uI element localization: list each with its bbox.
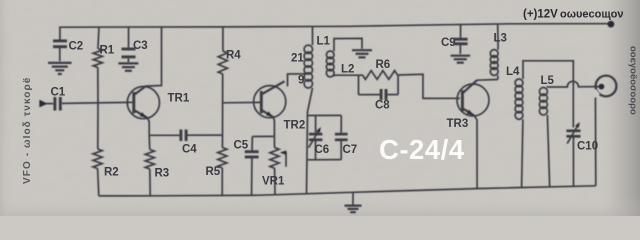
- capacitor C9: [454, 39, 468, 44]
- wire: [460, 24, 462, 38]
- ground (below C9): [451, 56, 471, 63]
- wire: [572, 138, 574, 187]
- resistor R1: [93, 49, 102, 68]
- wire: [221, 168, 223, 195]
- wire: [222, 27, 224, 51]
- wire (emitter node to C4): [149, 134, 179, 136]
- svg-text:C7: C7: [343, 144, 358, 156]
- wire: [315, 141, 317, 160]
- svg-text:R3: R3: [155, 168, 170, 180]
- svg-text:VR1: VR1: [262, 176, 285, 188]
- svg-text:L3: L3: [494, 33, 507, 45]
- svg-text:L1: L1: [317, 36, 331, 48]
- wire (L2 top to ground): [334, 38, 362, 51]
- wire (L1 bottom / C6C7 column): [307, 88, 313, 194]
- ground (main, below bottom rail): [352, 192, 354, 204]
- svg-text:TR1: TR1: [168, 93, 190, 105]
- transistor TR3: [457, 80, 498, 189]
- svg-text:TR2: TR2: [284, 120, 306, 132]
- svg-text:R6: R6: [376, 59, 391, 71]
- resistor R4: [218, 51, 227, 74]
- output connector (coax socket): [596, 76, 617, 97]
- inductor L3: [497, 75, 499, 79]
- capacitor C4: [181, 130, 186, 142]
- wire (rail end up to connector): [594, 91, 596, 185]
- wire: [547, 115, 549, 187]
- transistor TR1: [127, 27, 161, 135]
- svg-text:R4: R4: [226, 50, 241, 62]
- resistor R6: [363, 71, 398, 80]
- capacitor C7: [340, 115, 342, 132]
- capacitor C1: [55, 97, 60, 111]
- capacitor C8: [358, 75, 360, 95]
- svg-text:9: 9: [298, 75, 304, 87]
- svg-text:TR3: TR3: [447, 118, 469, 130]
- ground (L2): [352, 50, 372, 57]
- svg-text:L5: L5: [541, 75, 555, 87]
- wire (ground rail): [99, 186, 596, 196]
- svg-text:(+)12V: (+)12V: [523, 9, 558, 21]
- svg-text:C1: C1: [51, 87, 66, 99]
- wire (C1 to TR1 base node): [62, 102, 132, 103]
- wire (R1 bottom to base node): [97, 67, 99, 102]
- svg-text:C3: C3: [133, 40, 148, 52]
- inductor L5: [539, 88, 547, 116]
- wire (top tie of C6 C7): [307, 114, 341, 116]
- svg-text:C5: C5: [234, 140, 249, 152]
- inductor L1: [304, 45, 312, 88]
- inductor L4: [515, 79, 523, 119]
- node supply endpoint dot: [608, 21, 615, 28]
- capacitor C6 (trimmer): [315, 116, 317, 133]
- wire (emitter node to C5): [252, 135, 274, 137]
- svg-text:C2: C2: [69, 41, 84, 53]
- wire (L5 top to output, hops over C10 column): [547, 81, 598, 87]
- svg-text:C8: C8: [375, 100, 390, 112]
- capacitor C3: [122, 49, 136, 57]
- wire (L2 bottom to R6 node): [334, 75, 359, 76]
- svg-text:R1: R1: [100, 45, 115, 57]
- transistor TR2: [254, 74, 310, 137]
- svg-text:οοєγοёοσоορο: οοєγοёοσоορο: [628, 46, 639, 115]
- resistor R5: [221, 135, 223, 147]
- potentiometer VR1: [273, 136, 275, 147]
- svg-text:VFO - ωΙοδ τνκορё: VFO - ωΙοδ τνκορё: [22, 77, 33, 184]
- wire: [312, 27, 314, 45]
- wire (R6 node to TR3 base): [398, 74, 460, 98]
- wire: [251, 158, 253, 195]
- svg-text:L4: L4: [506, 66, 520, 78]
- svg-text:C-24/4: C-24/4: [379, 134, 465, 165]
- capacitor C5: [251, 137, 253, 151]
- wire (+12V supply rail): [59, 24, 611, 28]
- wire: [497, 24, 499, 50]
- capacitor C2: [53, 41, 67, 47]
- wire (L4 top box): [523, 61, 573, 128]
- svg-text:C10: C10: [577, 141, 598, 153]
- white gap in output connector ring: [591, 89, 599, 97]
- resistor R2: [93, 149, 102, 169]
- svg-text:oωυеcοщον: oωυеcοщον: [560, 9, 624, 21]
- wire: [59, 27, 61, 40]
- wire (bottom tie of C6 C7): [307, 159, 342, 161]
- wire: [522, 119, 523, 187]
- wire (C4 to R5 node): [188, 134, 223, 136]
- svg-text:C9: C9: [441, 37, 456, 49]
- svg-text:C6: C6: [315, 144, 330, 156]
- wire (base wire to TR2): [223, 101, 260, 103]
- wire: [59, 48, 61, 61]
- svg-text:C4: C4: [182, 144, 197, 156]
- svg-text:R5: R5: [206, 166, 221, 178]
- svg-text:R2: R2: [104, 167, 119, 179]
- wire: [128, 27, 130, 48]
- inductor L2: [326, 51, 334, 77]
- wire: [149, 169, 151, 196]
- capacitor C10 (variable): [566, 122, 580, 144]
- wire: [274, 168, 276, 195]
- node input terminal arrow: [39, 100, 48, 108]
- wire: [98, 169, 99, 196]
- ground (below C2): [48, 63, 72, 74]
- wire: [98, 27, 99, 49]
- svg-text:21: 21: [291, 53, 304, 65]
- resistor R3: [148, 135, 151, 149]
- svg-text:L2: L2: [341, 64, 354, 76]
- wire: [127, 58, 129, 62]
- ground (below C3): [118, 63, 138, 70]
- wire: [97, 103, 99, 149]
- wire: [47, 103, 54, 105]
- wire (R4 to TR2 base node): [222, 74, 224, 135]
